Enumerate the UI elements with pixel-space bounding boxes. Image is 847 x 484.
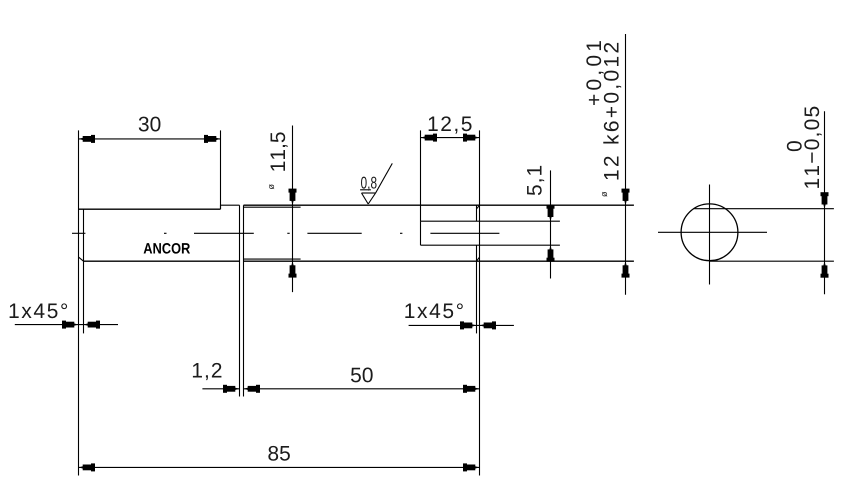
shaft section C top edge [244, 204, 634, 206]
end view vertical centerline [709, 185, 711, 285]
right chamfer diagonal top [477, 205, 480, 209]
shaft section C secondary top edge [244, 206, 301, 208]
text dia 11,5 rotated [269, 132, 288, 189]
left chamfer edge line [83, 209, 85, 333]
left end face extension line [78, 130, 80, 475]
arrowheads dimension 1x45 left [62, 321, 100, 329]
end view horizontal centerline [658, 231, 767, 233]
text dia 12 k6+0,012 rotated [602, 43, 621, 197]
dimension 85 line [79, 466, 480, 468]
dimension 1x45 left line [15, 324, 118, 326]
surface roughness symbol [360, 163, 392, 204]
shaft centerline [72, 232, 499, 234]
text 0,8 roughness value [361, 177, 377, 191]
arrowheads dimension 5,1 [547, 205, 555, 262]
arrowheads dimension 85 [79, 463, 480, 471]
right chamfer edge line upper segment [476, 205, 478, 221]
shaft bottom edge left [84, 260, 240, 262]
groove left line [239, 205, 241, 396]
arrowheads dimension dia 11,5 [289, 189, 297, 278]
arrowheads dimension dia 12 k6 [622, 189, 630, 278]
text upper tolerance 0 rotated [787, 141, 802, 151]
text ANCOR [144, 243, 190, 254]
dimension 5,1 line [550, 170, 552, 278]
dimension 1,2 leader line [202, 388, 239, 390]
arrowheads dimension 1,2 [223, 385, 260, 393]
keyway bottom edge [421, 244, 560, 246]
end view circle [681, 204, 738, 261]
dimension 30 extension line right [220, 130, 222, 209]
text +0,01 rotated [586, 41, 603, 105]
dimension 1x45 right line [409, 324, 514, 326]
left chamfer diagonal [79, 257, 84, 261]
text 1x45 left [10, 303, 67, 318]
dimension dia 11,5 line [292, 126, 294, 293]
arrowheads dimension 11-0,05 [821, 192, 829, 278]
dimension 30 line [79, 138, 221, 140]
text 85 [268, 446, 290, 461]
text 1x45 right [405, 303, 462, 318]
text 50 [351, 368, 373, 383]
arrowheads dimension 30 [79, 135, 221, 143]
step between section A and B [220, 205, 222, 209]
keyway left end [420, 221, 422, 245]
shaft bottom edge right [244, 260, 634, 262]
dimension 12,5 extension line left [420, 130, 422, 221]
dimension 11-0,05 line [824, 111, 826, 294]
text 30 [139, 117, 161, 132]
right end face extension line [479, 130, 481, 475]
dimension dia 12 k6 line [625, 34, 627, 295]
dimension 12,5 line [421, 137, 480, 139]
groove right line [243, 205, 245, 396]
dimension 50 line [244, 388, 480, 390]
text 1,2 [193, 363, 222, 380]
text 12,5 [429, 116, 472, 133]
right chamfer edge line lower segment [476, 245, 478, 333]
arrowheads dimension 12,5 [421, 134, 480, 142]
shaft section A top edge [79, 208, 221, 210]
end view bottom tangent line [710, 260, 834, 262]
shaft section B top edge [221, 204, 240, 206]
arrowhead dimension 50 right [463, 385, 480, 393]
end view flat line [694, 208, 834, 210]
text 11-0,05 rotated [804, 107, 821, 188]
right chamfer diagonal bottom [477, 257, 480, 261]
shaft section C secondary bottom edge [244, 258, 301, 260]
text 5,1 rotated [527, 166, 544, 195]
keyway top edge [421, 220, 560, 222]
arrowheads dimension 1x45 right [460, 321, 496, 329]
